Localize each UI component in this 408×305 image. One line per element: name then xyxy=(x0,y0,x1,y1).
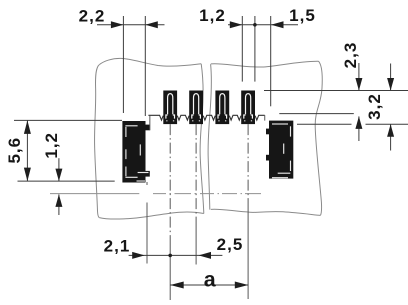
dimension line 1,2 / 1,5 (top) xyxy=(228,24,298,26)
pad 4 center line extension (solid) xyxy=(247,208,249,299)
housing outline bottom edge (left half) xyxy=(99,212,204,219)
svg-text:1,5: 1,5 xyxy=(289,6,316,25)
svg-text:2,2: 2,2 xyxy=(79,7,106,26)
left pad upper tab xyxy=(146,125,150,131)
left pad white reflection marks xyxy=(125,126,148,181)
SMD contact pad 3 xyxy=(215,91,229,125)
dimension line 1,2 (left, vertical lower part) xyxy=(58,194,60,215)
arrowhead left 1,2 up xyxy=(55,194,62,207)
svg-text:3,2: 3,2 xyxy=(365,93,384,120)
extension line at y=124.3 (pad bottom level, right, right segment) xyxy=(366,123,408,125)
right pad lower tab xyxy=(266,155,269,161)
pad 2 center line (dash-dot) xyxy=(195,124,197,218)
pin edge line right of left pad xyxy=(149,115,151,130)
arrowhead 5,6 up xyxy=(24,120,31,133)
arrowhead up at leg level (x=358.9) xyxy=(355,116,362,128)
extension line at x=147 (left pad right edge, upper tick) xyxy=(146,182,148,185)
arrowhead 2,2 left xyxy=(111,21,124,28)
reference dot on pad 1 center line xyxy=(168,254,172,258)
extension line at y=114.3 (solder leg level, right) xyxy=(279,113,354,115)
extension line at y=120.4 (left pad top) xyxy=(14,119,122,121)
svg-text:2,3: 2,3 xyxy=(341,42,360,69)
solder leg line between pad 1 and pad 2 xyxy=(177,115,189,120)
housing outline left edge xyxy=(95,65,100,218)
housing outline right edge xyxy=(315,61,322,215)
svg-text:1,2: 1,2 xyxy=(42,132,61,159)
pad 4 center line (dash-dot) xyxy=(247,124,249,208)
solder leg line right of pad 4 xyxy=(255,115,265,120)
svg-text:2,1: 2,1 xyxy=(104,237,131,256)
svg-text:1,2: 1,2 xyxy=(199,6,226,25)
break line left (wavy interruption) xyxy=(200,64,204,214)
solder leg line between pad 2 and pad 3 xyxy=(203,115,215,120)
SMD contact pad 1 xyxy=(163,91,177,125)
dimension line 2,3/3,2 tail below (x=358.9) xyxy=(358,116,360,141)
svg-text:2,5: 2,5 xyxy=(217,235,244,254)
spring contact pin 1 (white outline) xyxy=(166,94,175,121)
extension line at y=124.3 (pad bottom level, right, left segment) xyxy=(297,123,352,125)
pin 2 black core xyxy=(195,95,197,114)
spring contact pin 4 (white outline) xyxy=(244,94,253,121)
extension line at y=90.5 (pad top level, right) xyxy=(264,90,408,92)
SMD contact pad 2 xyxy=(189,91,203,125)
pin 3 black core xyxy=(221,95,223,114)
dimension line 3,2 (right, vertical x=390.6 upper) xyxy=(390,64,392,91)
housing outline top edge (right half) xyxy=(211,61,319,67)
arrowhead 2,3 down (x=358.9) xyxy=(355,78,362,91)
left pad lower tab xyxy=(146,171,150,177)
extension line at x=270.7 (right pad left edge) xyxy=(270,16,272,106)
solder leg line between pad 3 and pad 4 xyxy=(229,115,241,120)
break line right (wavy interruption) xyxy=(208,64,211,209)
housing outline top edge (left half, broken view) xyxy=(100,58,202,66)
housing outline bottom edge (right half) xyxy=(211,209,321,215)
SMD contact pad 4 xyxy=(241,91,255,125)
pad 2 center line extension (solid) xyxy=(195,218,197,265)
arrowhead a right xyxy=(235,282,249,289)
extension line at x=145.3 (left pad right edge) xyxy=(144,16,146,116)
arrowhead a left xyxy=(170,282,184,289)
dimension line 2,1 / 2,5 (bottom) xyxy=(129,254,223,256)
arrowhead 3,2 down (x=390.6) xyxy=(387,78,394,91)
right SMD solder pad (large) xyxy=(269,121,293,179)
arrowhead 1,2 left xyxy=(230,21,243,28)
dimension line a (bottom) xyxy=(170,284,248,286)
dimension line 2,3 (right, vertical) xyxy=(358,63,360,91)
right pad upper tab xyxy=(266,129,269,135)
dimension line 3,2 (right, vertical x=390.6 lower) xyxy=(390,124,392,150)
pad 1 center line extension (solid) xyxy=(169,242,171,300)
extension line at x=242.3 (pad 4 left edge) xyxy=(241,16,243,82)
solder leg line with meniscus dips (left of pad 1) xyxy=(148,115,163,120)
dimension line 5,6 (left, vertical) xyxy=(26,120,28,181)
right pad white reflection marks xyxy=(272,124,291,178)
reference dot between 1,2 and 1,5 xyxy=(253,23,257,27)
pin 1 black core xyxy=(169,95,171,114)
extension line at x=123.4 (left pad left edge) xyxy=(122,16,124,113)
spring contact pin 3 (white outline) xyxy=(218,94,227,121)
pad 1 center line (dash-dot) xyxy=(169,124,171,242)
arrowhead 1,5 right xyxy=(271,21,284,28)
left SMD solder pad (large) xyxy=(122,121,145,183)
arrowhead 2,1 right-pointing xyxy=(132,252,145,259)
arrowhead 3,2 up (x=390.6) xyxy=(387,124,394,137)
pin edge line left of right pad xyxy=(264,115,266,120)
arrowhead left 1,2 down xyxy=(55,169,62,182)
svg-text:5,6: 5,6 xyxy=(5,137,24,164)
dimension line 1,2 (left, vertical upper part) xyxy=(58,158,60,181)
spring contact pin 2 (white outline) xyxy=(192,94,201,121)
extension line at x=147 (left pad right edge, lower segment) xyxy=(146,203,148,264)
svg-text:a: a xyxy=(204,268,217,292)
dimension line 2,2 (top) xyxy=(97,24,165,26)
arrowhead 2,5 left-pointing xyxy=(199,252,212,259)
horizontal center line (dash-dot) xyxy=(50,193,261,195)
arrowhead 5,6 down xyxy=(24,168,31,182)
extension line at y=181.1 (left pad bottom) xyxy=(18,180,115,182)
arrowhead 2,2 right xyxy=(145,21,158,28)
pin 4 black core xyxy=(247,95,249,114)
extension line at x=254.9 (pad 4 right edge) xyxy=(254,16,256,82)
